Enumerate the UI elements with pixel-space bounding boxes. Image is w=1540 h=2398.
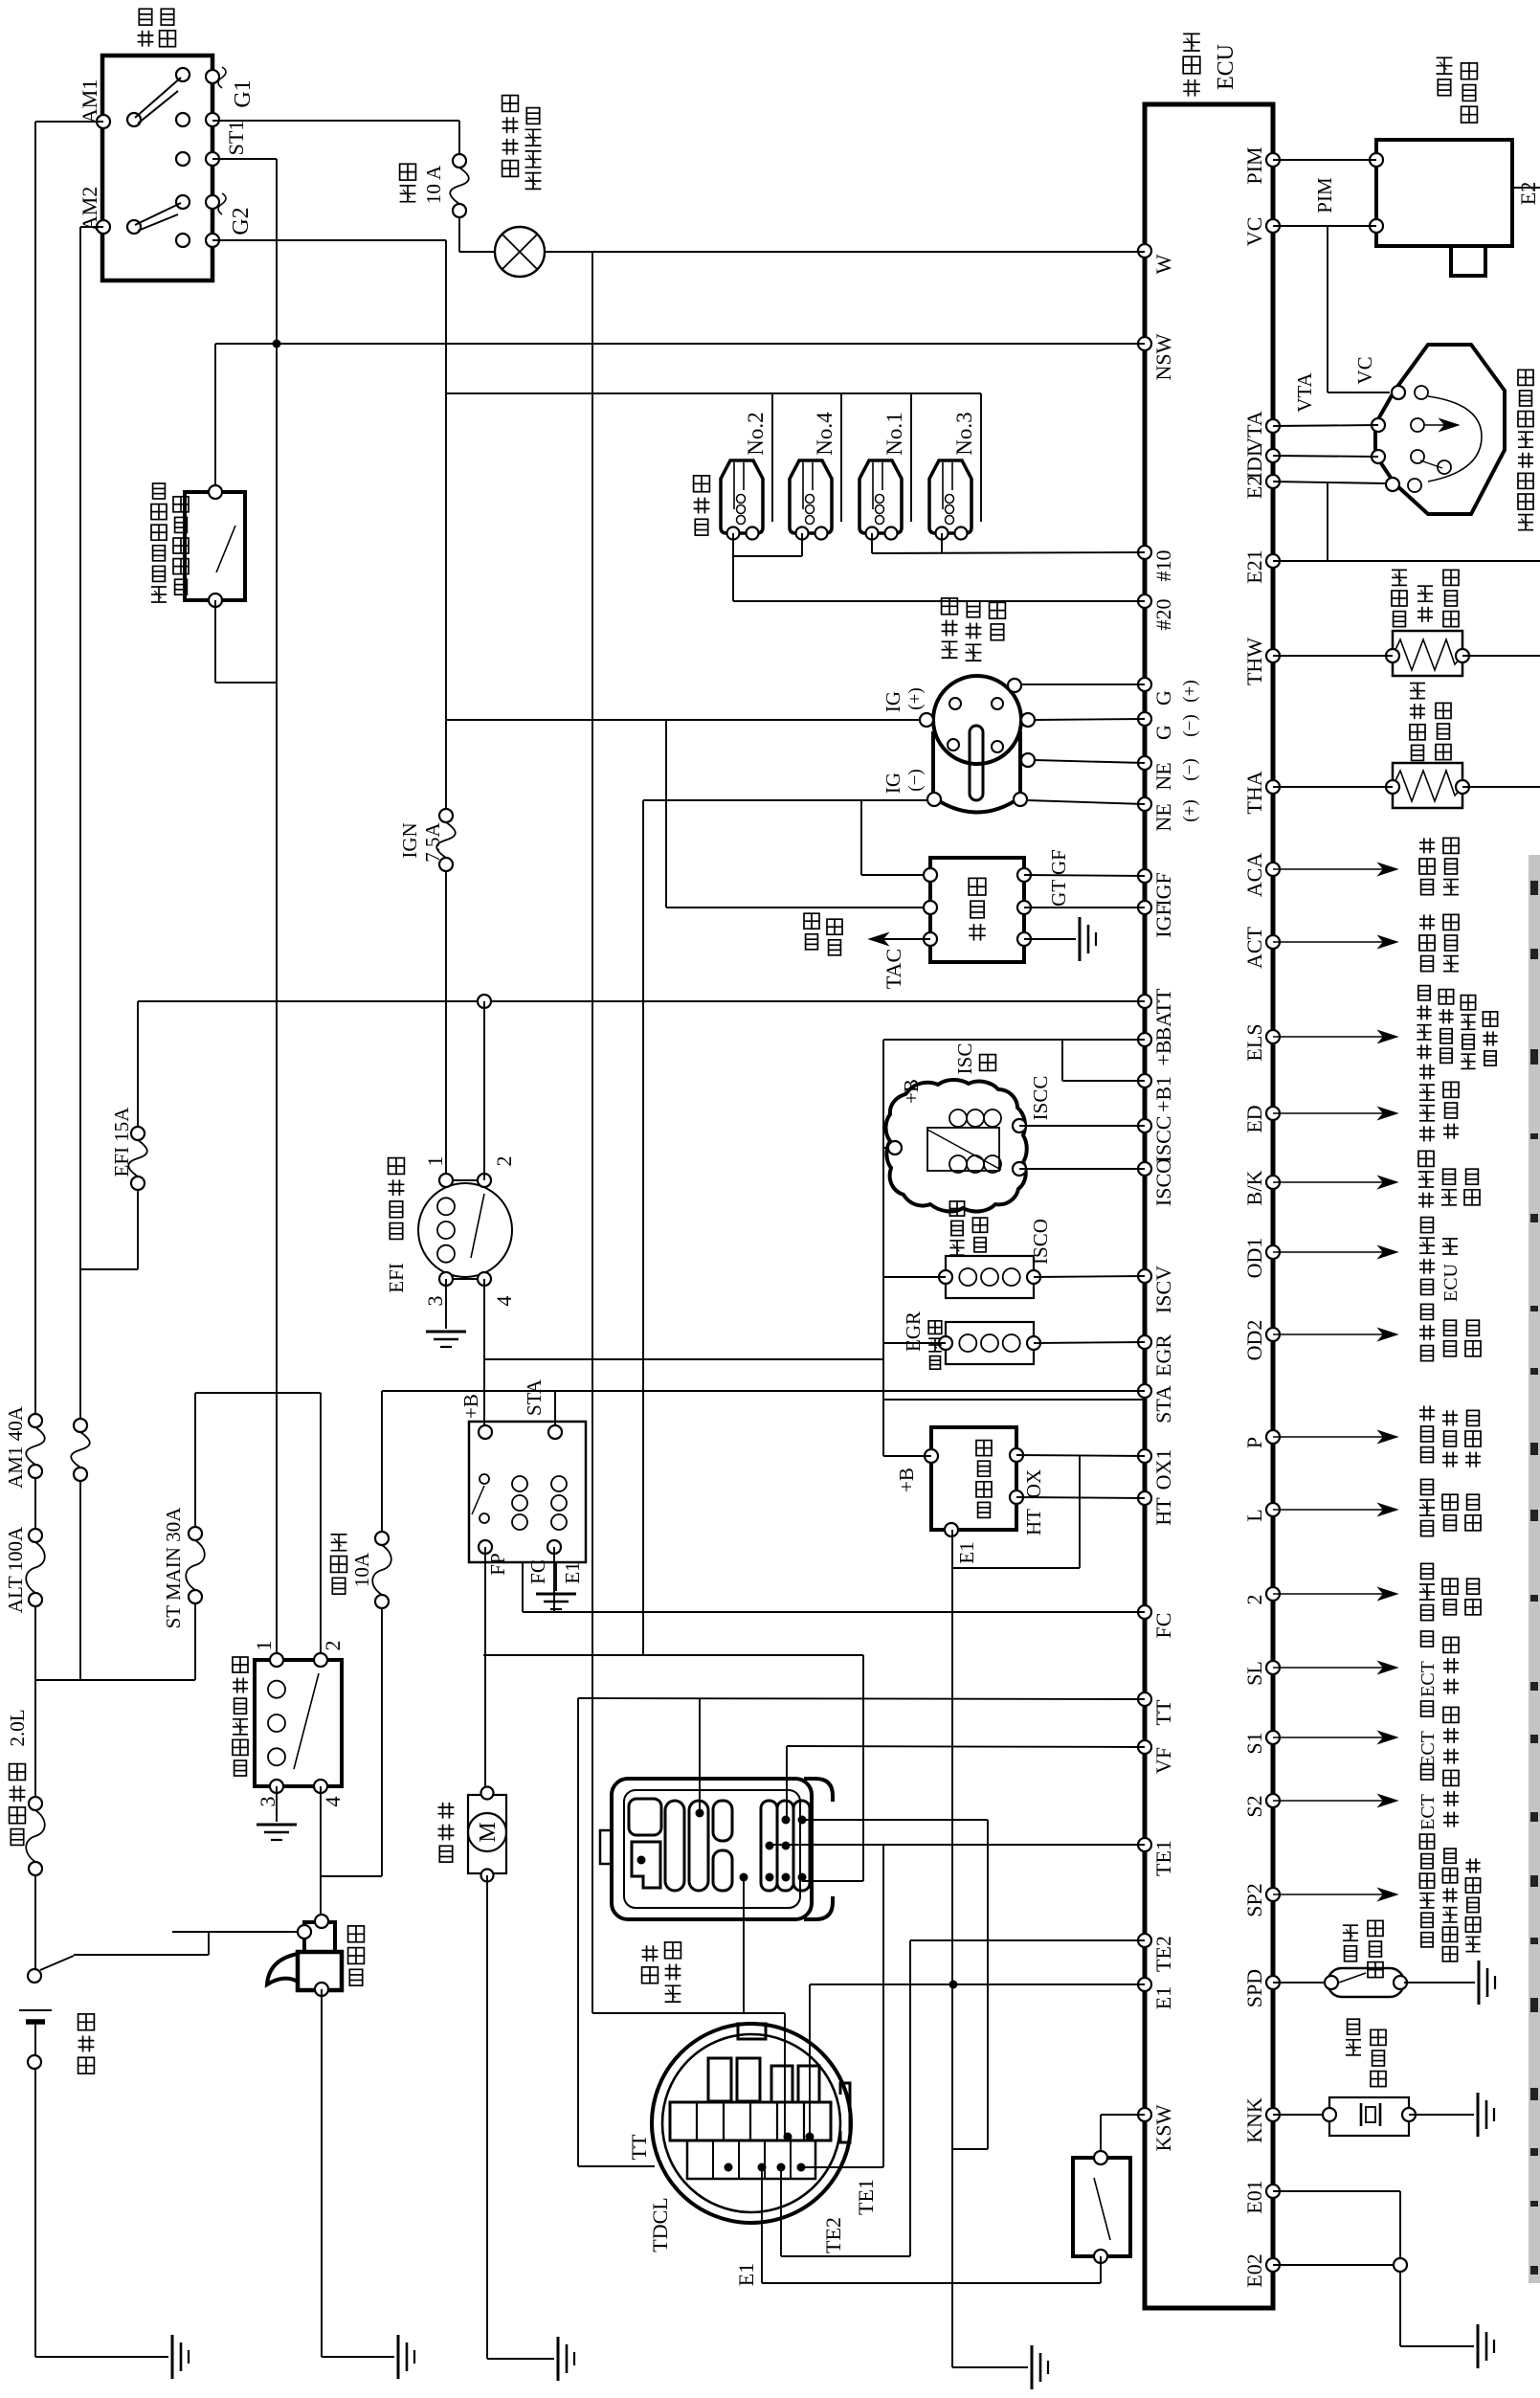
svg-text:(−): (−): [1180, 758, 1200, 780]
svg-text:KSW: KSW: [1151, 2104, 1175, 2151]
svg-text:EFI: EFI: [385, 1263, 408, 1293]
svg-text:ISCC: ISCC: [1029, 1076, 1052, 1121]
svg-text:EFI 15A: EFI 15A: [110, 1107, 133, 1177]
svg-text:FC: FC: [526, 1559, 549, 1584]
svg-text:M: M: [476, 1822, 501, 1842]
svg-text:SL: SL: [1242, 1661, 1266, 1686]
svg-text:VF: VF: [1151, 1747, 1175, 1774]
svg-text:(−): (−): [905, 769, 926, 791]
svg-text:ELS: ELS: [1242, 1023, 1266, 1061]
svg-text:SP2: SP2: [1242, 1883, 1266, 1916]
svg-text:E2: E2: [1242, 476, 1266, 499]
svg-text:P: P: [1242, 1437, 1266, 1448]
svg-text:TE1: TE1: [854, 2179, 878, 2215]
svg-text:TT: TT: [627, 2134, 651, 2160]
svg-text:IG: IG: [882, 691, 904, 712]
svg-text:KNK: KNK: [1242, 2097, 1266, 2143]
svg-text:1: 1: [423, 1156, 447, 1167]
svg-text:HT: HT: [1151, 1497, 1175, 1526]
svg-text:STA: STA: [523, 1378, 546, 1416]
svg-text:FP: FP: [486, 1553, 509, 1575]
svg-text:S2: S2: [1242, 1795, 1266, 1817]
svg-text:FC: FC: [1151, 1613, 1175, 1639]
svg-text:1: 1: [252, 1641, 276, 1651]
svg-text:TT: TT: [1151, 1699, 1175, 1725]
svg-text:TE2: TE2: [1151, 1936, 1175, 1972]
svg-text:2: 2: [1242, 1595, 1266, 1605]
svg-text:NE: NE: [1151, 803, 1175, 831]
svg-text:#20: #20: [1151, 599, 1175, 631]
svg-text:SPD: SPD: [1242, 1969, 1266, 2007]
svg-text:ISCV: ISCV: [1151, 1266, 1175, 1313]
svg-text:GT GF: GT GF: [1047, 849, 1070, 907]
svg-text:OD2: OD2: [1242, 1320, 1266, 1361]
svg-text:ECU: ECU: [1440, 1263, 1462, 1302]
svg-text:+B1: +B1: [1151, 1076, 1175, 1112]
svg-text:No.2: No.2: [744, 412, 768, 455]
svg-text:E1: E1: [734, 2263, 758, 2286]
svg-text:TE2: TE2: [821, 2217, 845, 2253]
svg-text:3: 3: [423, 1296, 447, 1307]
svg-text:NSW: NSW: [1151, 333, 1175, 380]
svg-text:OD1: OD1: [1242, 1238, 1266, 1279]
svg-text:E21: E21: [1242, 549, 1266, 583]
svg-text:AM1: AM1: [78, 79, 101, 123]
svg-text:ST MAIN 30A: ST MAIN 30A: [162, 1507, 185, 1629]
svg-text:TE1: TE1: [1151, 1840, 1175, 1876]
svg-text:S1: S1: [1242, 1732, 1266, 1754]
svg-text:2: 2: [492, 1156, 516, 1167]
svg-text:E1: E1: [1151, 1986, 1175, 2009]
svg-text:ECU: ECU: [1214, 44, 1239, 90]
svg-text:IGN: IGN: [398, 822, 421, 858]
svg-text:ISCC: ISCC: [1151, 1116, 1175, 1163]
svg-text:THW: THW: [1242, 638, 1266, 685]
svg-text:W: W: [1151, 254, 1175, 274]
svg-text:STA: STA: [1151, 1385, 1175, 1423]
svg-text:ALT 100A: ALT 100A: [4, 1526, 27, 1613]
svg-text:ACA: ACA: [1242, 853, 1266, 898]
svg-text:OX: OX: [1022, 1469, 1045, 1498]
svg-text:10A: 10A: [350, 1552, 373, 1587]
svg-text:+B: +B: [1151, 1040, 1175, 1065]
svg-text:ECT: ECT: [1417, 1731, 1439, 1767]
svg-text:IDL: IDL: [1242, 444, 1266, 480]
svg-text:(+): (+): [1180, 799, 1200, 821]
svg-text:TAC: TAC: [882, 949, 905, 989]
svg-text:2.0L: 2.0L: [6, 1709, 29, 1746]
svg-text:No.1: No.1: [882, 412, 906, 455]
svg-text:7.5A: 7.5A: [421, 821, 444, 862]
svg-text:4: 4: [492, 1296, 516, 1307]
svg-text:TDCL: TDCL: [648, 2197, 672, 2252]
svg-text:NE: NE: [1151, 762, 1175, 790]
svg-text:HT: HT: [1022, 1509, 1045, 1535]
svg-text:ACT: ACT: [1242, 926, 1266, 969]
svg-text:10 A: 10 A: [422, 165, 445, 204]
svg-text:ECT: ECT: [1417, 1794, 1439, 1830]
svg-text:E1: E1: [955, 1541, 978, 1563]
svg-text:IGF: IGF: [1151, 872, 1175, 906]
svg-text:ST1: ST1: [224, 121, 248, 156]
svg-text:VC: VC: [1353, 356, 1376, 384]
svg-text:L: L: [1242, 1509, 1266, 1521]
svg-text:+B: +B: [895, 1468, 918, 1492]
svg-text:G: G: [1151, 725, 1175, 740]
svg-text:AM2: AM2: [78, 187, 101, 231]
svg-text:G: G: [1151, 690, 1175, 706]
svg-text:OX1: OX1: [1151, 1449, 1175, 1490]
svg-text:EGR: EGR: [1151, 1334, 1175, 1377]
svg-text:2: 2: [321, 1641, 345, 1651]
svg-text:BATT: BATT: [1151, 988, 1175, 1042]
svg-text:ISCO: ISCO: [1029, 1219, 1052, 1265]
svg-text:VTA: VTA: [1293, 371, 1316, 412]
svg-text:IG: IG: [882, 773, 904, 794]
svg-text:B/K: B/K: [1242, 1171, 1266, 1206]
svg-text:ED: ED: [1242, 1105, 1266, 1132]
svg-text:ISC: ISC: [953, 1043, 976, 1075]
svg-text:+B: +B: [459, 1394, 482, 1419]
svg-text:E2: E2: [1516, 182, 1540, 205]
svg-text:PIM: PIM: [1313, 177, 1336, 213]
svg-text:(+): (+): [1180, 680, 1200, 702]
svg-text:IGF: IGF: [1151, 904, 1175, 937]
svg-text:(+): (+): [905, 687, 926, 709]
svg-text:No.4: No.4: [813, 412, 837, 456]
svg-text:E1: E1: [561, 1561, 584, 1583]
svg-text:VC: VC: [1242, 217, 1266, 247]
svg-text:(−): (−): [1180, 714, 1200, 736]
svg-text:4: 4: [321, 1797, 345, 1807]
svg-text:#10: #10: [1151, 550, 1175, 582]
svg-text:G2: G2: [229, 207, 254, 235]
svg-text:ECT: ECT: [1417, 1661, 1439, 1697]
svg-text:PIM: PIM: [1242, 146, 1266, 184]
svg-text:E02: E02: [1242, 2253, 1266, 2287]
svg-text:EGR: EGR: [902, 1311, 925, 1352]
svg-text:AM1 40A: AM1 40A: [4, 1405, 27, 1489]
svg-text:THA: THA: [1242, 771, 1266, 814]
svg-text:ISCO: ISCO: [1151, 1158, 1175, 1206]
svg-text:E01: E01: [1242, 2180, 1266, 2213]
svg-text:G1: G1: [231, 79, 256, 107]
svg-text:+B: +B: [900, 1079, 923, 1104]
svg-text:No.3: No.3: [952, 412, 976, 455]
